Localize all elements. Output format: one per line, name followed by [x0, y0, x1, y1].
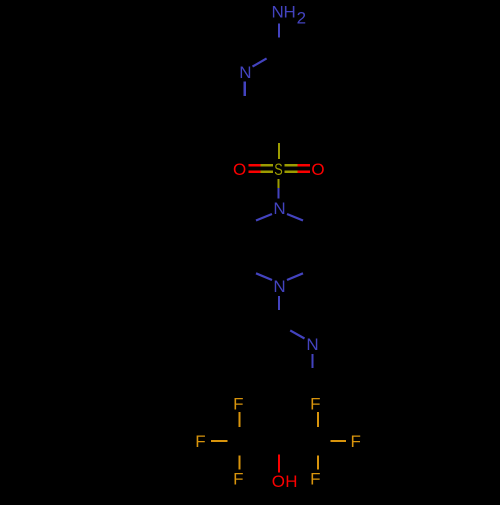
bond N2-C upper-left (N half) — [256, 214, 272, 221]
svg-text:N: N — [239, 63, 251, 82]
bond N1-C6 (ring, N half) — [244, 82, 246, 97]
bond F(bottom-right)-C9 (F half) — [317, 456, 319, 470]
bond N3-C2' (N half) — [278, 296, 280, 310]
double bond S=O left, S half (olive) — [261, 164, 273, 166]
bond F(left)-C8 (F half) — [211, 440, 228, 442]
svg-text:O: O — [311, 160, 324, 179]
double bond S=O right, O half (red) — [298, 164, 311, 166]
bond NH2-C2 (amine to pyridine C2, N half) — [278, 23, 280, 37]
bond S-N2 (S half) — [277, 179, 279, 188]
bond N3-C lower-left (N half) — [256, 273, 272, 280]
svg-text:F: F — [233, 469, 243, 488]
svg-text:N: N — [273, 199, 285, 218]
svg-text:N: N — [271, 3, 283, 22]
svg-text:F: F — [233, 395, 243, 414]
bond F(top-left)-C8 (F half) — [238, 412, 240, 427]
bond S-N2 (N half) — [277, 188, 279, 198]
svg-text:F: F — [310, 395, 320, 414]
bond F(top-right)-C9 (F half) — [317, 412, 319, 427]
svg-text:2: 2 — [297, 9, 306, 28]
svg-text:S: S — [274, 160, 283, 179]
svg-text:H: H — [283, 3, 295, 22]
bond C5-S (S half) — [278, 143, 280, 159]
double bond S=O left, O half (red) — [248, 164, 260, 166]
svg-text:H: H — [285, 472, 297, 491]
svg-text:O: O — [272, 472, 285, 491]
atom label NH2 — [271, 3, 306, 28]
svg-text:N: N — [273, 277, 285, 296]
svg-text:F: F — [351, 432, 361, 451]
bond F(right)-C9 (F half) — [331, 440, 347, 442]
bond C2'-N4 (N half) — [290, 330, 304, 338]
bond N4-C6' (N half) — [311, 354, 313, 368]
svg-text:F: F — [195, 432, 205, 451]
bond F(bottom-left)-C8 (F half) — [238, 456, 240, 470]
atom label OH (carbinol) — [272, 472, 298, 491]
double bond S=O right, S half (olive) — [285, 164, 298, 166]
bond N1-C2 (ring, N half) — [253, 58, 267, 66]
svg-text:O: O — [233, 160, 246, 179]
bond N3-C lower-right (N half) — [287, 273, 303, 280]
svg-text:N: N — [306, 335, 318, 354]
bond N2-C upper-right (N half) — [287, 214, 303, 221]
svg-text:F: F — [310, 469, 320, 488]
bond C7-OH (O half) — [278, 454, 280, 472]
